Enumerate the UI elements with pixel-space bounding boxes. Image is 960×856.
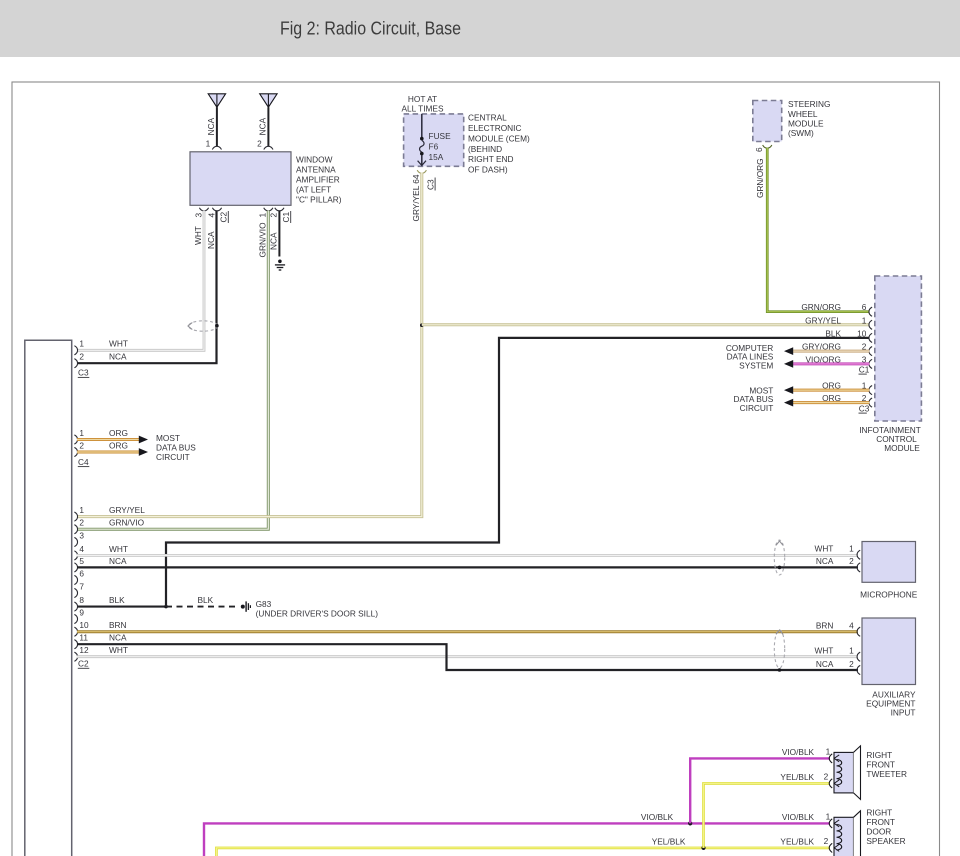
svg-text:DOOR: DOOR (866, 827, 891, 837)
svg-text:INPUT: INPUT (891, 707, 916, 717)
svg-text:OF DASH): OF DASH) (468, 165, 508, 175)
svg-text:VIO/BLK: VIO/BLK (782, 812, 815, 822)
svg-text:15A: 15A (429, 152, 444, 162)
svg-text:WINDOW: WINDOW (296, 154, 333, 164)
radio pin 2 C2 GRN/VIO (74, 518, 144, 534)
svg-text:C3: C3 (78, 368, 89, 378)
infotainment control module (875, 276, 922, 421)
wire NCA amplifier pin4 to radio C3 pin2 (77, 211, 217, 364)
svg-text:NCA: NCA (109, 556, 127, 566)
svg-text:(UNDER DRIVER'S DOOR SILL): (UNDER DRIVER'S DOOR SILL) (256, 608, 379, 618)
svg-text:BLK: BLK (109, 595, 125, 605)
svg-text:1: 1 (826, 811, 831, 821)
svg-text:BRN: BRN (816, 621, 834, 631)
label computer data lines system (726, 343, 774, 371)
connector label C2 radio (78, 659, 90, 669)
CEM bottom pin 64 C3 (417, 170, 426, 173)
connector label C4 radio (78, 457, 90, 467)
label G83 (256, 599, 379, 619)
svg-text:NCA: NCA (109, 633, 127, 643)
junction GRY/YEL branch (420, 323, 424, 327)
infotainment pin 2 ORG C3 (822, 393, 872, 407)
amplifier bottom pin 1 C1 (258, 208, 273, 218)
ground G83 (241, 601, 251, 611)
wire ORG 2 to MOST data bus (784, 399, 869, 407)
wire GRY/ORG to computer data lines (784, 347, 869, 355)
right front door speaker (834, 811, 861, 856)
antenna 2 (260, 94, 277, 107)
wire NCA antenna 2 lead (267, 107, 269, 146)
radio pin 1 C2 GRY/YEL (74, 505, 145, 521)
svg-text:(SWM): (SWM) (788, 128, 814, 138)
radio pin 5 C2 NCA (74, 556, 127, 572)
svg-text:FRONT: FRONT (866, 760, 895, 770)
radio unit (25, 340, 72, 856)
svg-text:GRN/VIO: GRN/VIO (258, 222, 268, 258)
svg-text:F6: F6 (429, 141, 439, 151)
svg-text:SPEAKER: SPEAKER (866, 836, 905, 846)
label NCA antenna 1 (206, 117, 216, 135)
svg-text:1: 1 (849, 646, 854, 656)
radio pin 4 C2 WHT (74, 544, 128, 560)
microphone pin 1 WHT (814, 543, 860, 559)
label MOST data bus circuit left (156, 433, 196, 462)
svg-text:C2: C2 (78, 659, 89, 669)
svg-text:C2: C2 (219, 212, 229, 223)
radio pin 2 C4 ORG (74, 440, 128, 456)
svg-text:12: 12 (79, 645, 89, 655)
radio pin 10 C2 BRN (74, 620, 126, 636)
wire BLK junction to infotainment pin10 (166, 338, 869, 607)
label infotainment control module (859, 425, 921, 453)
svg-text:Fig 2: Radio Circuit, Base: Fig 2: Radio Circuit, Base (280, 19, 461, 39)
wire WHT radio pin12 to auxiliary input (77, 655, 858, 658)
svg-text:MICROPHONE: MICROPHONE (860, 589, 918, 599)
svg-text:11: 11 (79, 633, 88, 643)
amplifier bottom pin 4 C2 (206, 208, 221, 218)
microphone (862, 542, 916, 583)
amplifier bottom pin 2 C1 (269, 208, 284, 218)
tweeter pin 1 VIO/BLK (826, 746, 840, 763)
twisted pair marker at auxiliary input wires (774, 630, 784, 672)
junction YEL/BLK (701, 846, 705, 850)
amplifier top pin 2 (257, 138, 273, 149)
label HOT AT ALL TIMES (402, 94, 444, 113)
label right front door speaker (866, 808, 905, 847)
connector label C3 radio (78, 368, 90, 378)
svg-text:SYSTEM: SYSTEM (739, 360, 773, 370)
svg-text:(BEHIND: (BEHIND (468, 144, 502, 154)
wire BRN radio pin10 to auxiliary input (77, 630, 858, 633)
svg-text:10: 10 (857, 328, 867, 338)
svg-text:2: 2 (849, 659, 854, 669)
connector label C3 infotainment (859, 403, 870, 413)
connector label C1 amplifier (281, 211, 291, 223)
radio pin 9 C2 (74, 607, 84, 623)
svg-text:10: 10 (79, 620, 89, 630)
svg-text:ORG: ORG (109, 428, 128, 438)
svg-text:MODULE: MODULE (788, 118, 824, 128)
wire VIO/BLK branch to right front tweeter (690, 747, 830, 823)
SWM bottom pin 6 (754, 145, 772, 152)
svg-text:CENTRAL: CENTRAL (468, 113, 507, 123)
svg-text:BRN: BRN (109, 620, 127, 630)
svg-text:FRONT: FRONT (866, 817, 895, 827)
svg-text:YEL/BLK: YEL/BLK (780, 772, 814, 782)
svg-text:1: 1 (849, 543, 854, 553)
wire GRN/VIO amplifier C1 pin1 to radio C2 pin2 (77, 211, 268, 530)
svg-text:GRY/YEL 64: GRY/YEL 64 (411, 174, 421, 221)
wire VIO/BLK radio to right front door speaker (204, 812, 830, 856)
connector label C1 infotainment (859, 364, 870, 374)
label right front tweeter (866, 750, 907, 779)
svg-text:TWEETER: TWEETER (866, 769, 907, 779)
junction BLK (164, 605, 168, 609)
connector label C2 amplifier (219, 211, 229, 223)
label MOST data bus circuit right (733, 385, 773, 413)
svg-text:1: 1 (79, 339, 84, 349)
svg-text:2: 2 (824, 836, 829, 846)
svg-text:WHT: WHT (109, 544, 128, 554)
svg-text:WHT: WHT (109, 339, 128, 349)
svg-text:2: 2 (257, 138, 262, 148)
label NCA antenna 2 (258, 117, 268, 135)
svg-text:6: 6 (862, 302, 867, 312)
svg-text:2: 2 (269, 213, 279, 218)
svg-text:3: 3 (193, 213, 203, 218)
ground at amplifier (275, 260, 285, 271)
svg-text:YEL/BLK: YEL/BLK (780, 837, 814, 847)
radio pin 12 C2 WHT (74, 645, 128, 661)
svg-text:C1: C1 (859, 364, 870, 374)
svg-text:C3: C3 (859, 403, 870, 413)
svg-text:1: 1 (79, 505, 84, 515)
svg-text:ALL TIMES: ALL TIMES (402, 103, 444, 113)
radio pin 3 C2 (74, 530, 84, 546)
svg-text:VIO/BLK: VIO/BLK (641, 812, 674, 822)
infotainment pin 2 GRY/ORG (802, 342, 872, 356)
twisted pair marker at microphone wires (774, 540, 784, 575)
wire GRY/YEL 64 from fuse (77, 173, 422, 517)
svg-text:2: 2 (79, 440, 84, 450)
svg-text:4: 4 (849, 621, 854, 631)
radio pin 6 C2 (74, 568, 84, 584)
svg-text:C3: C3 (425, 179, 435, 190)
connector label C3 at CEM (425, 178, 435, 191)
radio pin 8 C2 BLK (74, 595, 84, 611)
label CEM (468, 113, 530, 175)
svg-text:6: 6 (79, 568, 84, 578)
svg-text:6: 6 (754, 147, 764, 152)
svg-text:RIGHT END: RIGHT END (468, 154, 513, 164)
svg-text:YEL/BLK: YEL/BLK (652, 837, 686, 847)
svg-text:GRY/YEL: GRY/YEL (805, 315, 841, 325)
svg-text:"C" PILLAR): "C" PILLAR) (296, 194, 342, 204)
wire YEL/BLK radio to right front door speaker (216, 837, 830, 856)
svg-text:2: 2 (824, 771, 829, 781)
svg-text:BLK: BLK (198, 595, 214, 605)
infotainment pin 1 GRY/YEL (805, 315, 872, 329)
wire NCA radio pin5 to microphone (77, 566, 858, 568)
svg-text:AMPLIFIER: AMPLIFIER (296, 174, 340, 184)
wire YEL/BLK branch to right front tweeter (704, 772, 831, 848)
wire BLK dashed to ground G83 (166, 595, 238, 606)
infotainment pin 1 ORG C3 (822, 381, 872, 395)
svg-text:5: 5 (79, 556, 84, 566)
svg-text:4: 4 (79, 544, 84, 554)
auxiliary equipment input (862, 618, 916, 685)
label window antenna amplifier (296, 154, 342, 204)
radio pin 11 C2 NCA (74, 633, 127, 649)
wire WHT amplifier pin3 to radio C3 pin1 (77, 211, 204, 351)
svg-text:1: 1 (206, 138, 211, 148)
svg-text:FUSE: FUSE (429, 131, 452, 141)
svg-text:GRN/VIO: GRN/VIO (109, 518, 145, 528)
label microphone (860, 589, 918, 599)
header band (0, 0, 960, 57)
svg-text:C4: C4 (78, 457, 89, 467)
steering wheel module SWM (753, 101, 782, 142)
svg-text:C1: C1 (281, 212, 291, 223)
auxiliary input pin 2 NCA (816, 659, 860, 675)
svg-text:STEERING: STEERING (788, 99, 830, 109)
label SWM (788, 99, 830, 138)
svg-text:NCA: NCA (206, 231, 216, 249)
svg-text:GRY/YEL: GRY/YEL (109, 505, 145, 515)
wire NCA antenna 1 lead (216, 107, 218, 146)
right front tweeter (834, 746, 861, 800)
svg-text:MODULE: MODULE (884, 443, 920, 453)
wire ORG radio C4 pin1 to MOST (77, 436, 148, 444)
svg-text:NCA: NCA (816, 556, 834, 566)
junction VIO/BLK (688, 821, 692, 825)
svg-text:NCA: NCA (258, 117, 268, 135)
antenna 1 (208, 94, 225, 107)
svg-text:RIGHT: RIGHT (866, 808, 892, 818)
svg-text:WHT: WHT (193, 226, 203, 245)
svg-text:2: 2 (849, 556, 854, 566)
svg-text:3: 3 (79, 530, 84, 540)
svg-text:1: 1 (826, 746, 831, 756)
svg-text:ORG: ORG (109, 440, 128, 450)
svg-text:NCA: NCA (206, 117, 216, 135)
window antenna amplifier U1 (190, 152, 291, 206)
svg-text:1: 1 (862, 315, 867, 325)
microphone pin 2 NCA (816, 556, 860, 572)
wire ORG to MOST data bus (784, 386, 869, 394)
svg-text:GRN/ORG: GRN/ORG (755, 158, 765, 198)
label fuse F6 15A (429, 131, 452, 162)
svg-text:2: 2 (79, 518, 84, 528)
auxiliary input pin 1 WHT (814, 646, 860, 662)
wire ORG radio C4 pin2 to MOST (77, 448, 148, 456)
svg-text:VIO/BLK: VIO/BLK (782, 747, 815, 757)
radio pin 2 C3 NCA (74, 352, 127, 368)
central electronic module CEM (404, 114, 464, 166)
svg-text:NCA: NCA (269, 232, 279, 250)
svg-text:MODULE (CEM): MODULE (CEM) (468, 133, 530, 143)
svg-text:RIGHT: RIGHT (866, 750, 892, 760)
wire BLK radio pin8 to ground junction (77, 595, 166, 606)
svg-text:WHEEL: WHEEL (788, 109, 818, 119)
wire GRY/YEL branch to infotainment pin1 (422, 323, 870, 326)
svg-text:WHT: WHT (814, 543, 833, 553)
svg-text:8: 8 (79, 595, 84, 605)
svg-text:1: 1 (258, 213, 268, 218)
svg-text:G83: G83 (256, 599, 272, 609)
wire NCA radio pin11 to auxiliary input (77, 644, 858, 670)
svg-text:CIRCUIT: CIRCUIT (156, 452, 190, 462)
svg-text:7: 7 (79, 581, 84, 591)
label auxiliary equipment input (866, 689, 916, 717)
infotainment pin 6 GRN/ORG (801, 302, 872, 316)
wire VIO/ORG to computer data lines (784, 360, 869, 368)
door speaker pin 2 YEL/BLK (824, 836, 840, 853)
infotainment pin 10 BLK (825, 328, 872, 342)
svg-text:ELECTRONIC: ELECTRONIC (468, 123, 521, 133)
svg-text:WHT: WHT (109, 645, 128, 655)
svg-text:4: 4 (206, 213, 216, 218)
auxiliary input pin 4 BRN (816, 621, 860, 637)
amplifier bottom pin 3 C2 (193, 208, 208, 218)
door speaker pin 1 VIO/BLK (826, 811, 840, 828)
wire GRN/ORG SWM to infotainment pin6 (755, 148, 869, 312)
svg-text:NCA: NCA (109, 352, 127, 362)
svg-text:WHT: WHT (814, 646, 833, 656)
tweeter pin 2 YEL/BLK (824, 771, 840, 788)
radio pin 7 C2 (74, 581, 84, 597)
svg-text:1: 1 (79, 428, 84, 438)
svg-text:GRN/ORG: GRN/ORG (801, 302, 841, 312)
svg-text:ANTENNA: ANTENNA (296, 164, 336, 174)
svg-text:NCA: NCA (816, 659, 834, 669)
twisted pair marker at antenna leads (188, 321, 219, 331)
infotainment pin 3 VIO/ORG (806, 354, 873, 368)
wire WHT radio pin4 to microphone (77, 554, 858, 557)
svg-text:2: 2 (79, 352, 84, 362)
svg-text:(AT LEFT: (AT LEFT (296, 184, 331, 194)
fuse F6 15A (418, 114, 426, 166)
radio pin 1 C3 WHT (74, 339, 128, 355)
svg-text:9: 9 (79, 607, 84, 617)
wire NCA amplifier C1 pin2 to ground (269, 211, 280, 257)
amplifier top pin 1 (206, 138, 222, 149)
radio pin 1 C4 ORG (74, 428, 128, 444)
svg-text:BLK: BLK (825, 328, 841, 338)
svg-text:CIRCUIT: CIRCUIT (740, 403, 774, 413)
